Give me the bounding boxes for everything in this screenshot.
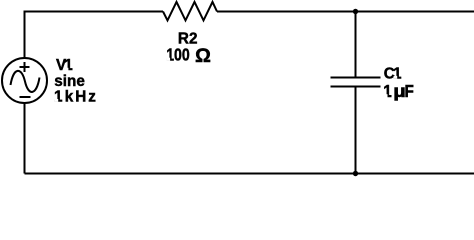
svg-text:1: 1 <box>64 57 73 74</box>
svg-text:F: F <box>405 82 414 101</box>
svg-text:1: 1 <box>393 65 402 82</box>
svg-text:100: 100 <box>166 46 190 65</box>
svg-text:1: 1 <box>383 82 392 101</box>
svg-text:1: 1 <box>54 88 63 105</box>
svg-text:kHz: kHz <box>65 88 98 105</box>
svg-text:Ω: Ω <box>195 46 211 67</box>
